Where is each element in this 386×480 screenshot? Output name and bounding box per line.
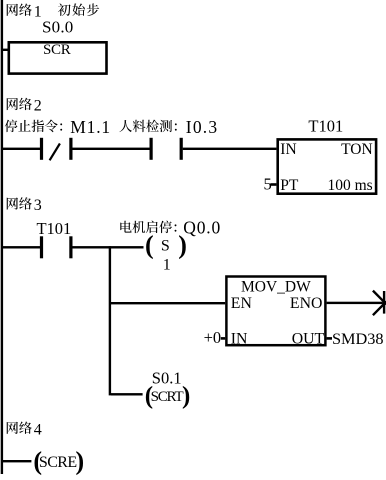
- svg-text:SCR: SCR: [43, 42, 71, 58]
- timer box T101: [278, 139, 376, 193]
- svg-text:4: 4: [34, 421, 42, 438]
- svg-text:EN: EN: [231, 295, 253, 312]
- contact I0.3 right bar: [180, 138, 183, 160]
- svg-text:OUT: OUT: [292, 331, 325, 348]
- wire rail to SCR box: [2, 49, 9, 51]
- svg-text:T101: T101: [36, 219, 71, 238]
- svg-text:2: 2: [34, 98, 42, 115]
- svg-text:TON: TON: [341, 141, 373, 158]
- svg-text:ENO: ENO: [290, 295, 322, 312]
- wire branch to MOV_DW EN: [111, 302, 225, 304]
- network 3 label 网络: [7, 197, 32, 209]
- svg-text:MOV_DW: MOV_DW: [241, 278, 311, 295]
- svg-text:100 ms: 100 ms: [327, 177, 372, 194]
- branch wire down: [109, 246, 111, 395]
- wire rail to contact T101: [2, 246, 40, 248]
- svg-text:IN: IN: [280, 141, 296, 158]
- svg-text:+0: +0: [204, 328, 222, 347]
- contact M1.1 left bar: [40, 138, 43, 160]
- svg-text:SCRE: SCRE: [39, 454, 77, 471]
- arrow bar: [383, 291, 385, 314]
- svg-text:1: 1: [34, 3, 42, 20]
- svg-text:S: S: [161, 238, 170, 255]
- wire +0 to IN pin: [221, 337, 225, 340]
- svg-text:S0.1: S0.1: [152, 368, 182, 387]
- wire 5 to PT pin: [270, 183, 276, 186]
- comment 人料检测：: [120, 120, 177, 132]
- contact M1.1 right bar: [69, 138, 72, 160]
- svg-text:): ): [76, 446, 85, 475]
- svg-text:): ): [178, 231, 187, 260]
- svg-text:M1.1: M1.1: [70, 117, 111, 137]
- wire rail to contact M1.1: [2, 148, 40, 150]
- svg-text:T101: T101: [308, 116, 343, 135]
- svg-text:Q0.0: Q0.0: [183, 218, 221, 238]
- svg-text:3: 3: [34, 197, 42, 214]
- left power rail: [1, 0, 3, 474]
- svg-text:): ): [182, 382, 190, 409]
- contact I0.3 left bar: [150, 138, 153, 160]
- network 1 comment 初始步: [58, 3, 99, 15]
- comment 停止指令：: [5, 120, 62, 133]
- contact M1.1 NC slash: [50, 144, 60, 161]
- wire contact T101 to S coil: [72, 246, 143, 248]
- contact T101 right bar: [69, 236, 72, 258]
- wire OUT to SMD38: [327, 337, 332, 340]
- arrow head: [373, 291, 386, 316]
- svg-text:1: 1: [163, 257, 171, 274]
- svg-text:S0.0: S0.0: [42, 17, 74, 36]
- wire branch to SCRT coil: [111, 393, 143, 395]
- MOV_DW box: [226, 277, 325, 346]
- network 4 label 网络: [7, 422, 32, 434]
- svg-text:IN: IN: [231, 331, 248, 348]
- wire contact I0.3 to timer box: [183, 148, 277, 150]
- svg-text:PT: PT: [280, 177, 299, 194]
- wire ENO to arrow: [327, 302, 383, 304]
- network 1 label 网络: [7, 4, 32, 16]
- SCR box S0.0: [9, 42, 107, 73]
- comment 电机启停：: [120, 221, 176, 233]
- svg-text:(: (: [145, 231, 154, 260]
- contact T101 left bar: [40, 236, 43, 258]
- network 2 label 网络: [7, 98, 32, 110]
- svg-text:I0.3: I0.3: [186, 117, 219, 137]
- svg-text:SMD38: SMD38: [332, 329, 384, 348]
- svg-text:SCRT: SCRT: [151, 389, 184, 405]
- wire rail to SCRE coil: [2, 460, 31, 462]
- wire contact M1.1 to contact I0.3: [72, 148, 149, 150]
